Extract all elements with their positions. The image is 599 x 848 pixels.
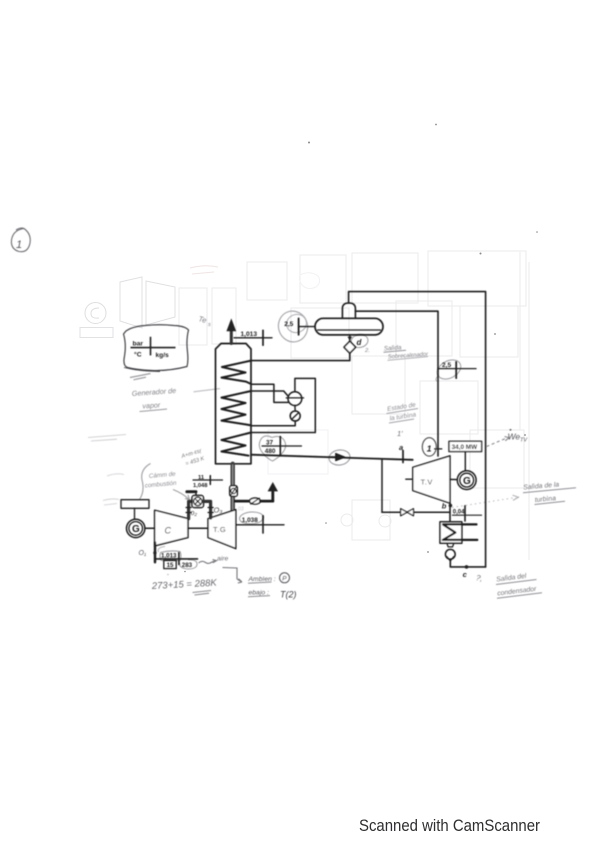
- svg-text:We: We: [508, 432, 521, 442]
- measurement 2,5 drum left: [299, 318, 315, 334]
- svg-text:T.G: T.G: [213, 525, 226, 534]
- pencil oval around TV-pipe 2,5: [434, 356, 464, 383]
- evaporator drum circle: [288, 392, 302, 406]
- coil 1 superheater: [222, 361, 252, 384]
- tick on TV inlet pipe: [435, 448, 442, 450]
- svg-text:1,038: 1,038: [242, 517, 258, 524]
- coil 2 evaporator: [222, 391, 252, 425]
- svg-text:O₃: O₃: [214, 506, 223, 515]
- main steam line: [251, 455, 413, 460]
- svg-text:s: s: [208, 322, 211, 328]
- svg-text:1,048: 1,048: [193, 483, 208, 489]
- wire: riser B boiler to drum circle: [251, 391, 288, 396]
- condenser: [440, 522, 462, 543]
- shaft TV-G2: [450, 478, 457, 480]
- wire: bypass line to condenser inlet: [382, 511, 450, 513]
- combustor: [192, 495, 204, 507]
- bracket arrow to notes: [223, 568, 243, 584]
- svg-text:2,5: 2,5: [284, 321, 293, 328]
- measurement 11/1048: [193, 476, 223, 485]
- svg-text:vapor: vapor: [142, 400, 161, 410]
- svg-text:Scanned with CamScanner: Scanned with CamScanner: [359, 816, 540, 835]
- svg-text:°C: °C: [134, 351, 142, 359]
- stack arrow: [226, 318, 236, 331]
- svg-text:O₁: O₁: [139, 550, 147, 557]
- INK: [121, 292, 486, 579]
- bypass damper: [250, 498, 261, 504]
- steam turbine T.V: [413, 456, 450, 503]
- svg-text:480: 480: [265, 448, 276, 455]
- legend cross: [131, 337, 176, 356]
- wire: dome right to TV inlet drop: [355, 311, 438, 456]
- condenser hotwell: [447, 543, 454, 547]
- link drum circle to pump: [294, 406, 296, 412]
- measurement 1,038 TG exhaust: [236, 516, 284, 533]
- faint pencil pointer to boiler: [194, 389, 221, 392]
- bypass valve (bowtie): [401, 509, 414, 516]
- wire: drum circle top loop to coil3: [251, 378, 315, 432]
- svg-text:a: a: [399, 443, 403, 452]
- wire: pump to node c and up right loop: [450, 559, 485, 567]
- bypass stack branch: [235, 500, 250, 503]
- svg-text:aire: aire: [217, 556, 229, 563]
- node c: [465, 565, 469, 569]
- svg-text:G: G: [132, 524, 140, 535]
- svg-text:”: ”: [167, 574, 169, 580]
- drum water level line: [318, 329, 381, 331]
- svg-text:11: 11: [198, 475, 205, 481]
- generator G2: [457, 471, 476, 490]
- compressor C: [155, 510, 188, 546]
- small arrow into valve d: [348, 337, 353, 341]
- svg-text:b: b: [442, 502, 447, 511]
- svg-text:2,5: 2,5: [442, 362, 451, 369]
- wire: dome top to right loop: [349, 292, 486, 567]
- wire: box to generator 2: [464, 452, 466, 471]
- svg-text:34,0 MW: 34,0 MW: [452, 444, 479, 451]
- dashed arrow to Wetv: [487, 439, 506, 447]
- svg-text:T(2): T(2): [280, 590, 297, 600]
- node a tick: [402, 451, 404, 463]
- wire: coil1 to valve d: [251, 353, 350, 360]
- pencil heart around 37/480: [259, 436, 285, 461]
- pencil circle around steam-line arrow: [328, 449, 351, 467]
- svg-text:0,04: 0,04: [453, 510, 465, 516]
- circulation pump circle: [290, 411, 300, 421]
- wire: bypass tee down: [381, 459, 383, 512]
- node b: [449, 504, 453, 508]
- pencil ovals around drum-left 2,5: [274, 307, 311, 345]
- generator G1: [127, 519, 145, 537]
- svg-text:1: 1: [427, 444, 432, 454]
- svg-text:Ambìen :: Ambìen :: [248, 576, 276, 583]
- drum dome: [342, 303, 355, 318]
- condensate pump: [445, 549, 455, 559]
- pencil oval around 1,038: [239, 511, 264, 525]
- svg-text:C: C: [165, 526, 172, 536]
- svg-text:kg/s: kg/s: [156, 352, 170, 359]
- box 34,0 MW: [449, 441, 482, 451]
- svg-text:1,013: 1,013: [161, 553, 177, 560]
- svg-text:15: 15: [167, 562, 174, 569]
- flue damper: [230, 486, 238, 497]
- coil 3 economizer: [222, 433, 252, 456]
- boiler HRSG column: [216, 344, 252, 464]
- valve d (diamond): [344, 341, 356, 353]
- TV shaft stub left: [406, 478, 413, 480]
- svg-text:P: P: [282, 576, 287, 583]
- duct C to combustor: [189, 501, 192, 518]
- PENCIL: [11, 228, 576, 600]
- faint scribbles left of exciter: [103, 499, 119, 505]
- shaft G1-C: [145, 527, 154, 529]
- dashed arrow to Salida de la turbina: [452, 498, 516, 508]
- svg-text:283: 283: [182, 562, 193, 569]
- svg-text:1': 1': [397, 429, 403, 438]
- shaft C-TG: [188, 527, 208, 529]
- pencil ellipse around d: [350, 333, 369, 349]
- air inlet to compressor: [154, 543, 156, 563]
- svg-text:1: 1: [16, 239, 22, 251]
- measurement 1,013 stack: [234, 330, 272, 345]
- stack stem: [230, 329, 233, 344]
- pencil oval around 283: [179, 560, 197, 570]
- wire: valve d to drum bottom: [349, 335, 351, 341]
- condenser cooling tube: [443, 524, 478, 540]
- wire: riser A boiler to drum circle: [251, 384, 288, 402]
- svg-text:bar: bar: [133, 341, 144, 348]
- svg-text:03: 03: [238, 507, 244, 513]
- flow arrow on steam line: [330, 454, 345, 461]
- gas turbine T.G: [208, 510, 236, 549]
- duct combustor to TG: [204, 501, 211, 518]
- wire: TV exhaust to condenser: [449, 503, 451, 522]
- bypass stack pipe: [260, 500, 272, 503]
- svg-text:2.: 2.: [364, 348, 370, 354]
- svg-text:1,013: 1,013: [241, 331, 258, 338]
- bypass stack arrow: [268, 482, 278, 491]
- squiggle arrow aire: [199, 560, 217, 564]
- measurement 1,013 / 15 | 283: [155, 558, 198, 560]
- pencil blob around 1,013 inlet: [160, 551, 181, 561]
- svg-text:37: 37: [266, 440, 274, 447]
- GHOSTS (bleed-through from reverse side, purely decorative): [80, 251, 529, 560]
- circled 1 at TV inlet: [422, 438, 436, 456]
- page number circled 1: [11, 228, 30, 252]
- legend blob outline: [124, 325, 189, 371]
- faint scribble left margin: [88, 435, 126, 442]
- exciter box: [121, 500, 149, 509]
- pencil blob around inlet 1,013 value: [158, 547, 165, 553]
- steam drum (horizontal): [315, 318, 383, 335]
- svg-text:o₂: o₂: [191, 510, 198, 517]
- pencil dashes under legend: [130, 374, 151, 380]
- svg-text:G: G: [463, 476, 471, 487]
- svg-text:T.V: T.V: [421, 478, 433, 487]
- fuel inlet: [187, 490, 196, 493]
- wire: pump return to boiler: [251, 421, 295, 426]
- flue duct boiler to TG: [230, 464, 234, 511]
- measurement 0,04: [453, 506, 482, 521]
- measurement 37/480: [262, 437, 302, 456]
- measurement 2,5 TV inlet pipe: [438, 362, 476, 378]
